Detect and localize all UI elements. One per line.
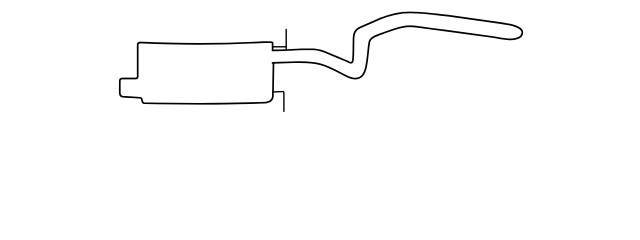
muffler body outline — [120, 42, 274, 104]
top hanger rod — [285, 30, 287, 50]
bottom hanger bracket + rod — [273, 92, 284, 112]
top hanger bracket ledge — [273, 46, 286, 48]
inlet pipe (S-bend up to long pipe with rounded tip) — [273, 12, 523, 78]
